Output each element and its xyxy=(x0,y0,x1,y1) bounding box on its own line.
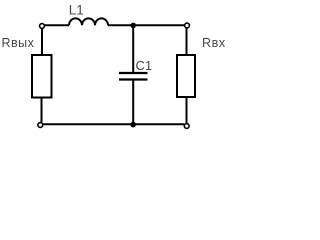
svg-text:C1: C1 xyxy=(136,58,153,73)
wire inductor to top-right terminal xyxy=(108,24,185,26)
wire bottom xyxy=(43,123,185,125)
wire top junction to capacitor xyxy=(132,25,134,72)
svg-text:Rвых: Rвых xyxy=(2,36,35,50)
capacitor C1 top plate xyxy=(119,72,148,74)
terminal top-right xyxy=(185,23,190,28)
svg-text:L1: L1 xyxy=(69,3,84,18)
wire resistor Rвх to bottom-right terminal xyxy=(186,97,188,124)
resistor Rвх body xyxy=(177,55,195,97)
wire top-right terminal down to resistor Rвх xyxy=(186,28,188,55)
wire terminal top-left down to resistor Rвых xyxy=(41,29,43,56)
terminal bottom-left xyxy=(38,123,43,128)
resistor Rвых body xyxy=(32,55,52,98)
svg-text:Rвх: Rвх xyxy=(202,36,226,50)
node top junction xyxy=(130,23,136,29)
wire top-left to inductor xyxy=(45,24,70,26)
wire capacitor to bottom junction xyxy=(132,81,134,125)
terminal bottom-right xyxy=(184,124,189,129)
node bottom junction xyxy=(130,122,136,128)
wire resistor Rвых to bottom-left terminal xyxy=(41,98,43,123)
capacitor C1 bottom plate xyxy=(119,78,148,80)
terminal top-left xyxy=(40,24,45,29)
inductor L1 xyxy=(69,18,108,25)
